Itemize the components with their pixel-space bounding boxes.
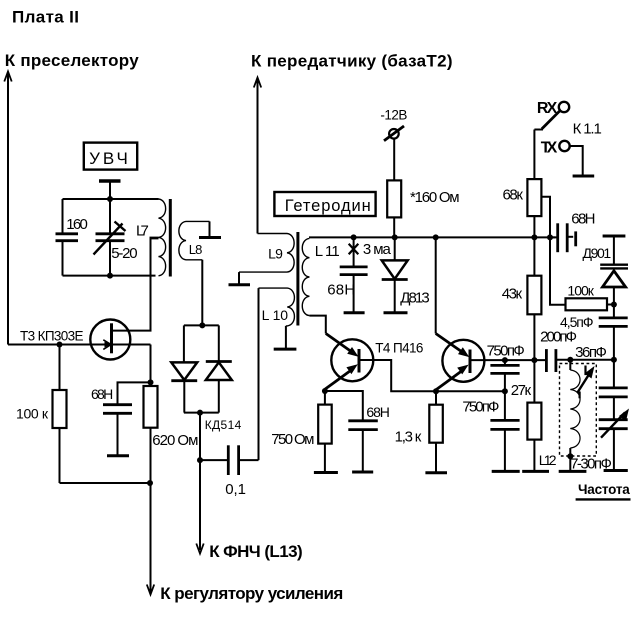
wire: 68H to ground (117, 413, 119, 455)
T4a base lead (359, 360, 505, 391)
terminal bar under УВЧ box (99, 179, 121, 182)
wire: 200пФ to right column (556, 359, 614, 361)
svg-text:К передатчику (базаТ2): К передатчику (базаТ2) (251, 52, 453, 71)
node: L12 bottom (567, 453, 573, 459)
svg-text:7-30пФ: 7-30пФ (570, 456, 612, 473)
wire: to transmitter vertical (257, 79, 259, 234)
L9 bottom lead to ground (238, 272, 240, 284)
resistor 100к (horizontal) (566, 298, 608, 310)
svg-text:L 11: L 11 (315, 243, 340, 260)
svg-text:L9: L9 (268, 246, 283, 262)
L12 bottom stub (569, 448, 571, 471)
tank bottom wire (63, 275, 156, 277)
wire: 43к line down to 27к (533, 314, 535, 402)
wire: down to 100k (59, 345, 61, 391)
wire: 1,3к to ground (435, 443, 437, 473)
wire: bus to Д813 (394, 237, 396, 260)
ground: 68H T4a (352, 471, 373, 474)
arrow head: to transmitter (254, 78, 261, 88)
resistor 68к (527, 179, 541, 216)
svg-text:Т4 П416: Т4 П416 (375, 340, 423, 355)
ground: 68H L11 (344, 311, 365, 314)
wire: -12B down (393, 138, 395, 180)
node: T4b emitter (433, 388, 439, 394)
svg-text:200пФ: 200пФ (540, 329, 577, 346)
УВЧ box (84, 143, 137, 170)
wire: source node to 68H cap (118, 382, 151, 404)
L12 dashed box (560, 364, 597, 457)
resistor 100 к (53, 390, 67, 428)
current mark 3 ма (349, 244, 359, 249)
node: regulator line junction (147, 480, 153, 486)
capacitor 68Н (right) plates (550, 236, 555, 238)
svg-text:УВЧ: УВЧ (89, 149, 128, 168)
variable capacitor 5-20 plates (96, 232, 125, 235)
inductor L10 coil (259, 288, 295, 326)
arrow head: to preselector (4, 72, 11, 82)
T4b upper lead with arrow (436, 334, 465, 355)
resistor *160 Ом (387, 180, 401, 217)
wire: 100к to Д901 line (607, 304, 614, 306)
svg-text:Д813: Д813 (400, 290, 430, 307)
T4b lower lead with arrow (436, 369, 464, 390)
T4b base bar (469, 350, 472, 374)
L7 tap (150, 237, 159, 240)
wire: L10 line from 0,1 cap up (258, 288, 260, 460)
node: bus / 100к line (547, 234, 553, 240)
node: T4a emitter (322, 388, 328, 394)
svg-text:160: 160 (66, 216, 88, 233)
L12 top stub (569, 360, 571, 370)
svg-text:1,3 к: 1,3 к (395, 429, 422, 446)
L9/L10/L11 core (296, 232, 299, 326)
svg-text:Д901: Д901 (583, 245, 612, 261)
ground: Д813 (384, 311, 408, 314)
wire: L8 bottom down to diode block (201, 260, 203, 326)
svg-text:100к: 100к (567, 283, 594, 299)
wire: Д901 to node (613, 287, 615, 318)
switch TX terminal (559, 141, 569, 151)
7-30пФ arrow (601, 413, 625, 438)
svg-text:Т3 КП303Е: Т3 КП303Е (20, 329, 84, 344)
wire: 68H down (362, 430, 364, 472)
svg-text:750пФ: 750пФ (462, 399, 499, 416)
svg-text:КД514: КД514 (205, 418, 242, 432)
capacitor 68Н (T4a) plates (348, 419, 378, 422)
wire: 68к side link (541, 197, 565, 305)
wire: TX to ground (570, 146, 583, 175)
svg-text:43к: 43к (502, 286, 523, 303)
switch К1.1 RX terminal (559, 102, 569, 112)
svg-text:3 ма: 3 ма (363, 241, 392, 258)
svg-text:Частота: Частота (578, 482, 630, 497)
svg-text:*160 Ом: *160 Ом (410, 189, 460, 206)
wire: switch down to 68к (533, 130, 535, 180)
varicap Д901 top bar (603, 235, 626, 238)
wire: to 750пФ top (504, 360, 506, 365)
wire: to preselector vertical line (7, 73, 9, 345)
node: base lead / 43к-27к line (531, 357, 537, 363)
node: source node (148, 379, 154, 385)
node: gate junction (57, 342, 63, 348)
capacitor 68Н (L11) plates (340, 265, 368, 268)
wire: bus down to T4b (435, 237, 437, 333)
T4a lower lead with arrow (325, 369, 353, 390)
ground: 750пФ (492, 470, 520, 473)
L11 bottom lead (309, 316, 325, 334)
diode КД514 right branch (218, 325, 220, 361)
wire: between caps (613, 397, 615, 420)
wire: 68к down through bus to 43к (533, 216, 535, 276)
diode block bottom wire (184, 412, 219, 414)
node: diode top (199, 322, 205, 328)
svg-text:36пФ: 36пФ (575, 344, 607, 361)
wire: bar down to tank top (109, 181, 111, 234)
svg-text:RX: RX (537, 100, 558, 117)
inductor L7 coil (159, 199, 166, 276)
wire: 27к to ground (533, 440, 535, 471)
Частота underline (576, 498, 631, 500)
svg-text:L 10: L 10 (262, 307, 289, 323)
switch lever (542, 110, 561, 129)
ground: right column (604, 469, 628, 472)
capacitor 68Н (T3) plates (103, 403, 132, 406)
ground: 1,3к (425, 471, 447, 474)
ground: under 68H T3 (107, 454, 129, 457)
resistor 750 Ом (318, 405, 332, 444)
capacitor 200пФ plates (545, 349, 548, 372)
arrow head: to gain regulator (147, 585, 154, 595)
ground: L10 (274, 348, 297, 351)
svg-text:L12: L12 (539, 452, 557, 468)
L7 core (169, 199, 172, 277)
T3 channel bar (110, 323, 113, 353)
inductor L9 coil (239, 234, 294, 273)
svg-text:К 1.1: К 1.1 (573, 120, 602, 137)
diode Д813 (382, 260, 408, 279)
resistor 620 Ом (144, 386, 158, 428)
ground: L12 (559, 470, 587, 473)
svg-text:Плата II: Плата II (12, 8, 79, 27)
resistor 27к (527, 403, 541, 440)
diode block top wire (184, 324, 219, 326)
node: bus / 68H branch (351, 234, 357, 240)
node: bus / 43к line (531, 234, 537, 240)
svg-text:68Н: 68Н (366, 404, 390, 420)
ground: L9 (229, 283, 251, 286)
capacitor 0,1 (200, 459, 227, 461)
wire: 100k bottom down (59, 428, 61, 483)
svg-text:750 Ом: 750 Ом (271, 431, 314, 448)
supply bus wire (309, 236, 558, 238)
Гетеродин box (274, 192, 375, 216)
wire: emitter to 750 Ом (324, 391, 326, 405)
svg-text:4,5пФ: 4,5пФ (560, 314, 594, 330)
inductor L8 coil (179, 221, 210, 259)
node: 750пФ mid (502, 388, 508, 394)
Д901 triangle (603, 271, 626, 287)
T3 source lead down (150, 345, 152, 387)
wire: to ground (504, 429, 506, 471)
svg-text:L7: L7 (136, 223, 149, 240)
wire: regulator line down with arrow (150, 428, 152, 592)
node: Д901 / 100к (611, 302, 617, 308)
node: diode bottom (197, 410, 203, 416)
node: L12 top (567, 357, 573, 363)
wire: ФНЧ arrow down (199, 460, 201, 550)
svg-text:0,1: 0,1 (225, 481, 246, 498)
svg-text:5-20: 5-20 (111, 245, 137, 262)
svg-text:К преселектору: К преселектору (5, 51, 140, 70)
resistor 1,3 к (429, 405, 443, 443)
T4a base bar (358, 349, 361, 373)
L12 variable arrow (578, 372, 591, 393)
wire: down to 0,1 node (199, 413, 201, 461)
node: bus / T4b collector line (433, 234, 439, 240)
svg-text:100 к: 100 к (16, 406, 49, 422)
wire: 750 Ом to ground (324, 444, 326, 472)
svg-text:620 Ом: 620 Ом (152, 432, 198, 449)
wire: gate line from left wire to T3 and source lead (8, 344, 151, 346)
Д901 double cathode bars (600, 264, 628, 266)
node: base lead / 750пФ (502, 357, 508, 363)
node: tank bottom (107, 273, 113, 279)
variable capacitor arrow (94, 224, 123, 255)
transistor T4a П416 circle (331, 339, 373, 381)
variable capacitor 7-30пФ plates (599, 418, 628, 421)
T3 gate arrowhead (103, 340, 111, 350)
wire: middle vertical below var cap (109, 241, 111, 276)
svg-text:68к: 68к (503, 187, 524, 204)
T4b base lead (470, 359, 546, 361)
inductor L12 coil (570, 370, 580, 448)
svg-text:К регулятору усиления: К регулятору усиления (160, 584, 343, 603)
svg-text:27к: 27к (511, 382, 532, 399)
wire: *160 to bus (393, 217, 395, 237)
wire: 68H to ground (353, 275, 355, 313)
capacitor 36пФ plates (599, 386, 628, 389)
svg-text:L8: L8 (189, 242, 203, 257)
L10 bottom lead to ground (285, 326, 287, 349)
svg-text:68Н: 68Н (91, 386, 113, 402)
node: right column / line (611, 357, 617, 363)
wire: down to line node (613, 326, 615, 388)
svg-text:750пФ: 750пФ (487, 343, 525, 360)
svg-text:TX: TX (541, 139, 558, 156)
arrow head: to FNCh (196, 544, 203, 554)
ground: TX (573, 175, 595, 178)
svg-text:-12В: -12В (380, 108, 407, 123)
resistor 43к (527, 276, 541, 315)
wire: horizontal to regulator line (60, 482, 151, 484)
node: tank top (107, 196, 113, 202)
wire: 750пФ mid (504, 373, 506, 420)
capacitor 750пФ upper plates (490, 364, 519, 367)
capacitor 750пФ lower plates (490, 419, 519, 422)
wire: 68H branch down (353, 237, 355, 267)
capacitor 160 plates (56, 232, 79, 235)
L8 top lead to ground (209, 221, 211, 236)
transistor T4b П416 circle (442, 340, 484, 382)
svg-text:Гетеродин: Гетеродин (285, 197, 371, 215)
node: 0,1 node (197, 457, 203, 463)
diode КД514 left branch (183, 325, 185, 362)
terminal -12В circle (389, 129, 399, 139)
wire: emitter to 1,3к (435, 391, 437, 404)
svg-text:68Н: 68Н (327, 282, 355, 299)
node: bus / Д813 (392, 234, 398, 240)
T4a upper lead with arrow (326, 334, 354, 354)
svg-text:К ФНЧ (L13): К ФНЧ (L13) (209, 542, 303, 561)
transistor T3 КП303Е circle (90, 320, 130, 360)
tank left vertical (62, 199, 64, 234)
T3 drain lead (112, 238, 151, 331)
ground: 27к (522, 470, 549, 473)
tank top wire (63, 198, 159, 200)
inductor L11 coil (302, 238, 309, 315)
capacitor 4,5пФ plates (599, 316, 628, 319)
wire: to ground (613, 429, 615, 470)
ground: L8 (199, 236, 221, 239)
svg-text:68Н: 68Н (571, 211, 595, 228)
ground: 750 Ом (314, 471, 338, 474)
wire: emitter node to 68H (325, 391, 363, 421)
